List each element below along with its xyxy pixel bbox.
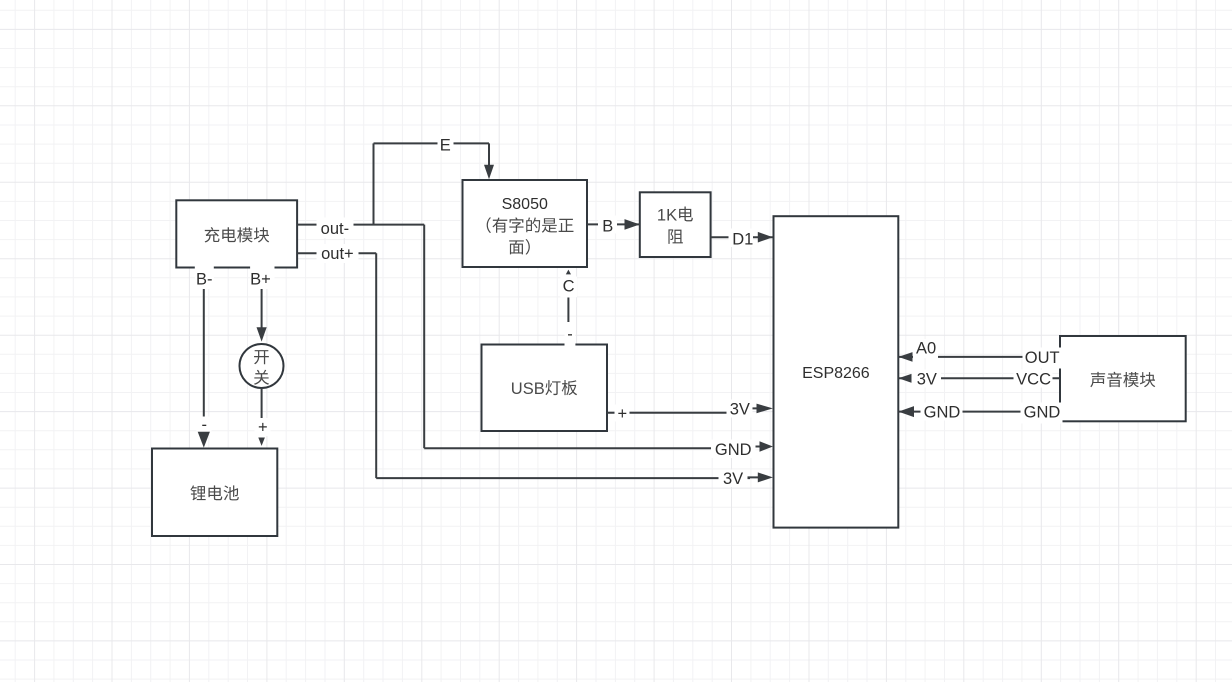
svg-text:B-: B- <box>196 270 213 288</box>
svg-text:A0: A0 <box>916 339 936 357</box>
svg-text:E: E <box>440 136 451 154</box>
svg-text:D1: D1 <box>732 231 753 249</box>
svg-text:B+: B+ <box>250 270 271 288</box>
svg-text:USB: USB <box>511 380 545 398</box>
svg-text:OUT: OUT <box>1025 349 1060 367</box>
svg-text:3V: 3V <box>730 401 750 419</box>
svg-text:1K: 1K <box>657 206 677 224</box>
svg-text:out+: out+ <box>321 245 354 263</box>
svg-text:+: + <box>258 419 268 437</box>
svg-text:+: + <box>617 405 627 423</box>
svg-text:GND: GND <box>1024 404 1061 422</box>
svg-text:3V: 3V <box>723 470 743 488</box>
svg-text:C: C <box>563 278 575 296</box>
svg-text:GND: GND <box>715 441 752 459</box>
svg-text:GND: GND <box>924 404 961 422</box>
svg-text:S8050: S8050 <box>502 196 548 213</box>
svg-text:3V: 3V <box>917 370 937 388</box>
svg-text:-: - <box>202 416 208 434</box>
svg-text:-: - <box>567 326 573 344</box>
svg-text:B: B <box>602 218 613 236</box>
svg-text:ESP8266: ESP8266 <box>802 365 870 382</box>
svg-text:VCC: VCC <box>1016 370 1051 388</box>
svg-text:out-: out- <box>321 220 349 238</box>
